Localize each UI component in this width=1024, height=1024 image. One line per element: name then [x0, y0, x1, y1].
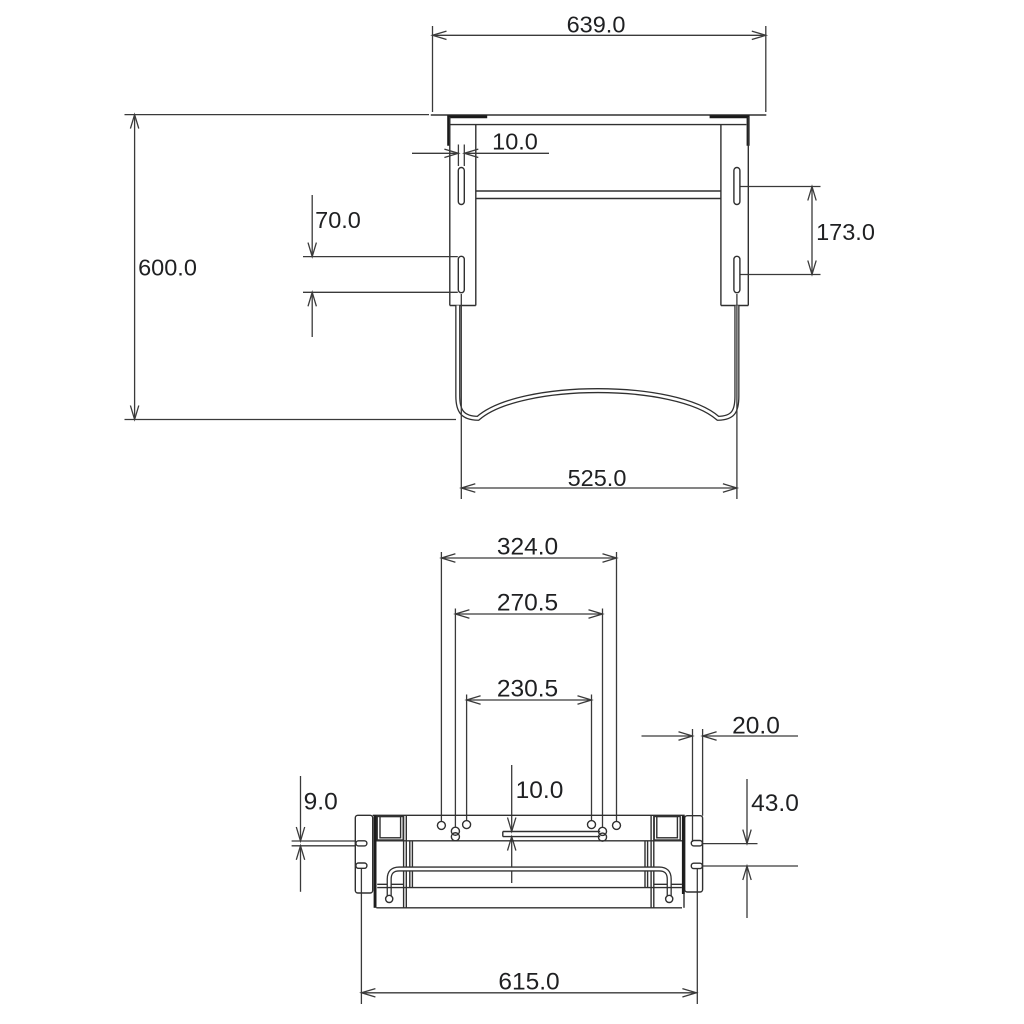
dimension 230.5 line with arrows: [467, 696, 592, 704]
lower flange edge right: [654, 883, 682, 885]
dimension 9.0 arrows: [296, 776, 304, 892]
dimension 639.0 extension line right: [765, 26, 767, 112]
dimension 70.0 extension line top: [303, 256, 458, 258]
crossbar bottom edge: [476, 198, 721, 200]
left bracket block: [377, 817, 403, 841]
bent support rod: [386, 869, 673, 903]
pin B right upper: [598, 827, 606, 835]
dimension 600.0 extension line top: [125, 114, 430, 116]
left end cap: [355, 815, 372, 893]
svg-text:525.0: 525.0: [568, 465, 627, 491]
dimension 230.5 extension line right: [591, 695, 593, 821]
dimension 173.0 extension line top: [741, 186, 821, 188]
svg-text:20.0: 20.0: [732, 713, 780, 740]
dimension 9.0 extension line bottom: [292, 845, 356, 847]
svg-text:230.5: 230.5: [497, 676, 558, 703]
left side plate thick edge: [374, 815, 377, 908]
left inner plate line A: [403, 815, 405, 908]
dimension 615.0 extension line left: [360, 869, 362, 1005]
right end cap slot lower: [691, 863, 702, 868]
left bracket block inner wall: [380, 817, 401, 838]
dimension 10.0 slot width leader and arrows: [412, 149, 549, 157]
hole C right: [588, 821, 596, 829]
straight rod top edge (10 mm): [503, 831, 600, 833]
body top edge: [373, 814, 685, 816]
svg-text:615.0: 615.0: [498, 969, 559, 996]
left post inner edge: [475, 125, 477, 306]
dimension 10.0 slot width witness lines: [457, 145, 459, 167]
dimension 615.0 extension line right: [696, 869, 698, 1004]
dimension 324.0 extension line left: [440, 552, 442, 821]
body bottom edge: [376, 907, 682, 909]
dimension 615.0 line with arrows: [361, 989, 697, 997]
bent rod right tip: [666, 895, 673, 902]
right bracket block inner wall: [657, 817, 678, 838]
right mid plate line A: [644, 841, 646, 888]
right end cap slot upper: [691, 841, 702, 846]
right bracket block: [654, 817, 680, 841]
dimension 173.0 line with arrows: [808, 187, 816, 275]
dimension 270.5 line with arrows: [455, 610, 602, 618]
dimension 43.0 arrows: [743, 779, 751, 918]
svg-text:173.0: 173.0: [816, 219, 875, 245]
right inner plate line B: [653, 815, 655, 908]
left inner plate line B: [405, 815, 407, 908]
dimension 639.0 extension line left: [432, 26, 434, 112]
left post upper slot: [458, 168, 464, 205]
right mid plate line B: [647, 841, 649, 888]
left post outer edge: [449, 117, 451, 306]
hole A right: [613, 821, 621, 829]
pin B left upper: [451, 827, 459, 835]
left mid plate line A: [409, 841, 411, 888]
dimension 173.0 extension line bottom: [741, 274, 821, 276]
body second edge: [376, 840, 682, 842]
left end cap slot lower: [356, 863, 367, 868]
straight rod bottom edge (10 mm): [503, 836, 600, 838]
right inner plate line A: [650, 815, 652, 908]
pin B left lower: [451, 833, 459, 841]
left end cap slot upper: [356, 841, 367, 846]
dimension 20.0 leader and arrows: [642, 732, 799, 740]
right post upper slot: [734, 168, 740, 205]
dimension 270.5 extension line left: [454, 609, 456, 827]
right side plate thick edge: [682, 816, 685, 894]
dimension 20.0 extension line left: [692, 729, 694, 842]
left mid plate line B: [411, 841, 413, 888]
hole A left: [437, 821, 445, 829]
table top plate top edge: [431, 114, 767, 116]
dimension 525.0 line with arrows: [461, 484, 737, 492]
right post inner edge: [720, 125, 722, 306]
dimension 43.0 extension line top: [703, 843, 758, 845]
crossbar top edge: [476, 190, 721, 192]
bent rod left tip: [386, 895, 393, 902]
U-shaped hanger tube: [458, 306, 737, 419]
left post bottom edge: [450, 305, 476, 307]
svg-text:270.5: 270.5: [497, 590, 558, 617]
dimension 43.0 extension line bottom: [703, 865, 798, 867]
right post outer edge: [747, 117, 749, 306]
dimension 20.0 extension line right: [702, 729, 704, 816]
svg-text:600.0: 600.0: [138, 254, 197, 280]
svg-text:324.0: 324.0: [497, 534, 558, 561]
straight rod left end cap: [502, 832, 504, 837]
svg-text:43.0: 43.0: [751, 790, 799, 817]
pin B right lower: [598, 833, 606, 841]
lower flange edge left: [377, 883, 403, 885]
dimension 525.0 extension line right: [736, 294, 738, 499]
right mounting flange thick mark: [710, 115, 750, 145]
right post lower slot: [734, 256, 740, 292]
dimension 600.0 line with arrows: [130, 115, 138, 420]
svg-text:9.0: 9.0: [304, 789, 338, 816]
right end cap: [685, 816, 703, 892]
dimension 70.0 arrows: [308, 195, 316, 337]
table top plate bottom edge: [450, 124, 746, 126]
dimension 600.0 extension line bottom: [125, 419, 457, 421]
svg-text:10.0: 10.0: [492, 129, 538, 155]
mid slab bottom edge: [377, 887, 682, 889]
dimension 9.0 extension line top: [292, 840, 356, 842]
dimension 639.0 line with arrows: [433, 31, 766, 39]
dimension 525.0 extension line left: [460, 294, 462, 499]
right side plate thin lower edge: [683, 894, 685, 908]
dimension 324.0 extension line right: [616, 552, 618, 821]
dimension 270.5 extension line right: [602, 609, 604, 828]
dimension 230.5 extension line left: [466, 695, 468, 821]
right post bottom edge: [721, 305, 748, 307]
dimension 70.0 extension line bottom: [303, 291, 458, 293]
left post lower slot: [458, 256, 464, 292]
svg-text:70.0: 70.0: [315, 207, 361, 233]
left mounting flange thick mark: [447, 115, 487, 145]
dimension 324.0 line with arrows: [441, 554, 616, 562]
svg-text:639.0: 639.0: [567, 12, 626, 38]
svg-text:10.0: 10.0: [516, 777, 564, 804]
dimension 10.0 rod arrows (bottom view): [508, 765, 516, 883]
hole C left: [463, 821, 471, 829]
